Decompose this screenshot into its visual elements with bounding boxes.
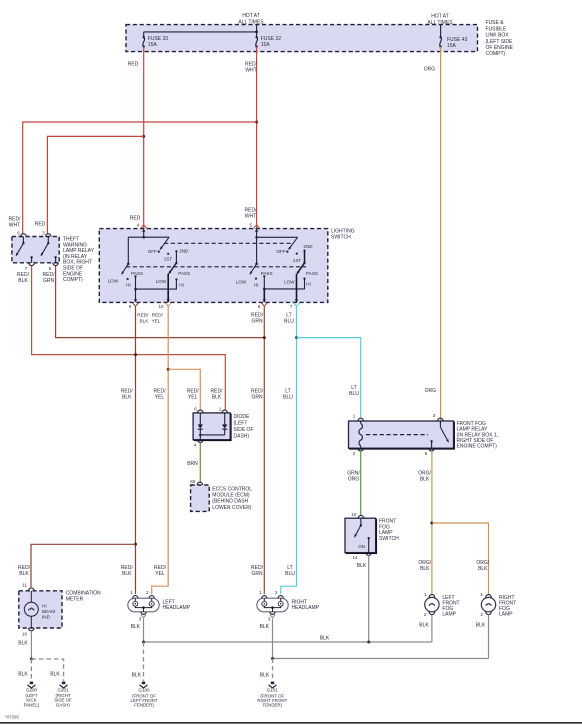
svg-text:15A: 15A bbox=[261, 42, 271, 48]
relay contact B (pin3 to pin5) bbox=[41, 237, 57, 263]
svg-text:(LEFT: (LEFT bbox=[234, 421, 248, 427]
svg-text:(LEFT SIDE: (LEFT SIDE bbox=[486, 39, 514, 45]
svg-text:2: 2 bbox=[275, 590, 278, 595]
svg-text:BLK: BLK bbox=[18, 278, 28, 284]
svg-text:1ST: 1ST bbox=[164, 256, 173, 261]
right headlamp low/high filaments bbox=[262, 598, 283, 612]
svg-text:YEL: YEL bbox=[188, 395, 198, 401]
svg-text:G200: G200 bbox=[26, 687, 38, 692]
svg-text:YEL: YEL bbox=[155, 571, 165, 577]
node: ORG/BLK splits to right fog lamp bbox=[430, 522, 433, 525]
power feed: HOT AT ALL TIMES (right) bbox=[427, 14, 453, 26]
pin 3 of theft relay bbox=[42, 231, 51, 237]
svg-text:*07096: *07096 bbox=[5, 715, 19, 720]
svg-text:RED/: RED/ bbox=[152, 313, 164, 318]
svg-text:(BEHIND DASH: (BEHIND DASH bbox=[212, 499, 248, 505]
diode element left bbox=[198, 413, 203, 435]
svg-text:WHT: WHT bbox=[245, 214, 256, 220]
svg-text:BLK: BLK bbox=[320, 635, 330, 641]
svg-text:2: 2 bbox=[353, 451, 356, 456]
relay contact A (pin6 to pin7) bbox=[16, 237, 33, 263]
lighting switch internal: right dimmer pass switch sub3 bbox=[236, 237, 273, 302]
svg-text:BLU: BLU bbox=[284, 319, 294, 325]
wire: diode output join bbox=[199, 434, 225, 440]
node: RED/BLK splits to combination meter bbox=[134, 543, 137, 546]
wire: ORG from fuse 43 to front fog lamp relay pin 3 bbox=[424, 47, 441, 421]
hi beam indicator bulb bbox=[24, 591, 55, 628]
ECCS control module (dashed box) bbox=[191, 485, 210, 511]
svg-text:FUSIBLE: FUSIBLE bbox=[486, 26, 508, 32]
svg-text:OFF: OFF bbox=[276, 249, 285, 254]
label: front fog lamp relay bbox=[457, 421, 499, 449]
svg-text:BLK: BLK bbox=[18, 640, 28, 646]
svg-text:BLK: BLK bbox=[132, 673, 142, 679]
node: RED/GRN joins relay branch bbox=[263, 336, 266, 339]
svg-text:BLK: BLK bbox=[212, 395, 222, 401]
wire: ORG/BLK branch to right front fog lamp bbox=[432, 523, 490, 594]
svg-text:GRN: GRN bbox=[251, 571, 263, 577]
lighting switch internal: right rotary (OFF/1ST/2ND) bbox=[255, 232, 313, 263]
svg-text:OF ENGINE: OF ENGINE bbox=[486, 45, 514, 51]
pin 11 of combination meter bbox=[22, 582, 34, 590]
pin 5 connector of lighting switch bbox=[250, 222, 260, 231]
svg-text:PASS: PASS bbox=[131, 271, 143, 276]
wire: BLK right headlamp pin 3 to ground node bbox=[260, 618, 273, 658]
wire: BLK fog switch pin 14 to ground bus bbox=[357, 555, 369, 642]
lighting switch internal: left dimmer pass switch sub1 bbox=[108, 237, 143, 302]
pin 2 of left headlamp bbox=[146, 590, 154, 598]
svg-text:14: 14 bbox=[352, 555, 358, 560]
wire: LT BLU lighting switch pin 7 to right headlamp pin 2 bbox=[281, 306, 297, 594]
pin 4 of diode bbox=[194, 440, 203, 448]
diode assembly D1 (box) bbox=[193, 413, 231, 441]
svg-text:METER: METER bbox=[66, 596, 84, 602]
svg-text:10: 10 bbox=[351, 512, 357, 517]
lighting switch internal: left rotary (OFF/1ST/2ND) bbox=[128, 232, 189, 262]
svg-text:9: 9 bbox=[129, 304, 132, 309]
ground G201 bbox=[54, 682, 72, 708]
node: right headlamp ground junction bbox=[271, 657, 274, 660]
svg-text:7: 7 bbox=[25, 266, 28, 271]
diode element right bbox=[222, 413, 227, 435]
pin 6 of theft relay bbox=[17, 231, 26, 237]
wire: BLK ground bus 2 (right headlamp / right fog lamp) bbox=[273, 658, 489, 660]
svg-text:YEL: YEL bbox=[155, 395, 165, 401]
wire: RED branch to theft warning relay pin 3 bbox=[35, 136, 144, 233]
svg-text:7: 7 bbox=[290, 304, 293, 309]
wire: RED/YEL lighting switch pin 10 to left headlamp pin 2 bbox=[152, 306, 169, 594]
pin 16 of combination meter bbox=[22, 628, 34, 637]
svg-text:BLU: BLU bbox=[349, 391, 359, 397]
svg-text:YEL: YEL bbox=[152, 319, 161, 324]
svg-text:BLU: BLU bbox=[285, 571, 295, 577]
svg-text:1: 1 bbox=[353, 413, 356, 418]
svg-text:BLK: BLK bbox=[122, 395, 132, 401]
label: right front fog lamp bbox=[499, 595, 516, 618]
svg-text:ORG: ORG bbox=[424, 67, 436, 73]
label: lighting switch bbox=[331, 229, 355, 241]
pin 1 of left front fog lamp bbox=[424, 592, 435, 597]
fog relay contact bbox=[430, 421, 448, 448]
wire: ORG/BLK fog relay pin 5 to left front fog lamp bbox=[418, 451, 432, 594]
svg-text:BLK: BLK bbox=[478, 566, 488, 572]
pin 10 connector of lighting switch bbox=[158, 299, 171, 309]
svg-text:HI: HI bbox=[306, 281, 311, 286]
pin 9 connector of lighting switch bbox=[129, 299, 139, 309]
ground G200 bbox=[24, 682, 40, 708]
svg-text:11: 11 bbox=[22, 582, 27, 587]
label: RED/BLK at diode pin 1 bbox=[211, 389, 224, 401]
svg-text:2ND: 2ND bbox=[179, 249, 189, 254]
svg-text:BLK: BLK bbox=[140, 319, 150, 324]
svg-text:4: 4 bbox=[194, 443, 197, 448]
page bottom rule bbox=[0, 722, 582, 724]
svg-text:ORG: ORG bbox=[348, 476, 360, 482]
svg-text:2: 2 bbox=[146, 590, 149, 595]
svg-text:SIDE OF: SIDE OF bbox=[234, 427, 254, 433]
svg-text:PASS: PASS bbox=[261, 271, 273, 276]
pin 2 of right front fog lamp bbox=[480, 612, 491, 617]
pin 6 of diode bbox=[194, 407, 203, 413]
label: combination meter bbox=[66, 591, 101, 603]
label: front fog lamp switch bbox=[379, 519, 399, 542]
svg-text:4: 4 bbox=[137, 222, 140, 227]
lighting switch internal: mechanical link (rotary) bbox=[164, 242, 293, 244]
node: left headlamp ground junction bbox=[142, 641, 145, 644]
svg-text:COMPT): COMPT) bbox=[486, 51, 506, 57]
lighting switch internal: mechanical link (dimmer) bbox=[126, 266, 306, 268]
fuse F43 15A bbox=[439, 25, 467, 49]
label: theft warning lamp relay bbox=[63, 237, 95, 284]
combination meter (dashed box) bbox=[19, 591, 62, 628]
svg-text:HI: HI bbox=[42, 604, 47, 609]
svg-text:BLK: BLK bbox=[18, 672, 28, 678]
right front fog lamp body bbox=[481, 597, 495, 611]
label: right headlamp bbox=[292, 599, 320, 611]
pin 3 of right headlamp bbox=[268, 612, 276, 622]
svg-text:ON: ON bbox=[358, 544, 365, 549]
svg-text:MODULE (ECM): MODULE (ECM) bbox=[212, 493, 250, 499]
wire: BLK combination meter pin 16 to ground split bbox=[18, 631, 31, 659]
svg-text:RED/: RED/ bbox=[137, 313, 149, 318]
wire: BLK left headlamp pin 3 to ground bus bbox=[131, 618, 144, 642]
svg-text:BLK: BLK bbox=[131, 624, 141, 630]
node: RED/WHT split to theft relay bbox=[255, 121, 258, 124]
left headlamp body bbox=[128, 598, 159, 612]
svg-text:DIODE: DIODE bbox=[234, 414, 251, 420]
pin 7 connector of lighting switch bbox=[290, 299, 300, 309]
left front fog lamp body bbox=[425, 597, 439, 611]
pin 2 of right headlamp bbox=[275, 590, 283, 598]
wire: dashed BLK to G101 bbox=[260, 659, 273, 682]
wire: dashed BLK to G100 bbox=[132, 642, 144, 681]
svg-text:WHT: WHT bbox=[245, 68, 256, 74]
svg-text:SWITCH: SWITCH bbox=[331, 235, 351, 241]
svg-text:PASS: PASS bbox=[178, 271, 190, 276]
pin 60 of ECM bbox=[190, 479, 202, 485]
svg-text:LINK BOX: LINK BOX bbox=[486, 33, 510, 39]
node: RED/YEL splits to diode bbox=[167, 368, 170, 371]
svg-text:BLK: BLK bbox=[260, 624, 270, 630]
lighting switch internal: left beam switch sub2 bbox=[136, 251, 191, 302]
svg-text:2ND: 2ND bbox=[303, 244, 313, 249]
svg-text:WHT: WHT bbox=[9, 223, 20, 229]
svg-text:5: 5 bbox=[49, 266, 52, 271]
wire: LT BLU branch to front fog lamp relay pin 1 bbox=[297, 338, 361, 418]
svg-text:GRN: GRN bbox=[251, 395, 263, 401]
ground G100 bbox=[131, 682, 158, 708]
node: RED split to theft relay bbox=[142, 135, 145, 138]
fog switch contact bbox=[354, 518, 370, 552]
front fog lamp relay (box) bbox=[349, 421, 455, 449]
svg-text:BLK: BLK bbox=[420, 566, 430, 572]
pin 1 of left headlamp bbox=[130, 590, 138, 598]
ground G101 bbox=[257, 682, 287, 708]
label: diode (left side of dash) bbox=[234, 414, 254, 440]
label: left headlamp bbox=[163, 599, 191, 611]
svg-text:3: 3 bbox=[42, 231, 45, 236]
lighting switch internal: right beam switch sub4 bbox=[264, 251, 318, 303]
fuse and fusible link box (dashed) bbox=[126, 25, 478, 52]
pin 2 of left front fog lamp bbox=[424, 612, 435, 617]
pin 6 connector of lighting switch bbox=[258, 299, 268, 309]
pin 3 of fog relay bbox=[433, 413, 443, 421]
node: RED/BLK joins relay branch bbox=[134, 353, 137, 356]
wire: GRN/ORG fog relay pin 2 to fog switch pin 10 bbox=[347, 451, 360, 515]
svg-text:BLK: BLK bbox=[476, 622, 486, 628]
svg-text:BLK: BLK bbox=[50, 672, 60, 678]
svg-text:16: 16 bbox=[22, 632, 28, 637]
node: fog switch ground junction bbox=[367, 641, 370, 644]
svg-text:LOWER COVER): LOWER COVER) bbox=[212, 505, 252, 511]
svg-text:RED: RED bbox=[128, 62, 139, 68]
pin 3 of left headlamp bbox=[139, 612, 147, 622]
wire: hot feed bus inside fuse box bbox=[144, 25, 257, 38]
svg-text:HOT AT: HOT AT bbox=[431, 14, 449, 20]
fog relay coil bbox=[359, 421, 362, 448]
svg-text:1: 1 bbox=[259, 590, 262, 595]
svg-text:BEAM: BEAM bbox=[42, 609, 55, 614]
right headlamp body bbox=[257, 598, 288, 612]
svg-text:LOW: LOW bbox=[156, 279, 167, 284]
fuse F32 15A bbox=[255, 32, 281, 48]
power feed: HOT AT ALL TIMES (left) bbox=[238, 13, 264, 25]
svg-text:FUSE &: FUSE & bbox=[486, 20, 505, 26]
svg-text:1: 1 bbox=[219, 407, 222, 412]
svg-text:3: 3 bbox=[268, 617, 271, 622]
svg-text:LOW: LOW bbox=[236, 280, 247, 285]
svg-text:5: 5 bbox=[250, 222, 253, 227]
fuse F33 15A bbox=[143, 36, 169, 48]
svg-text:LOW: LOW bbox=[108, 279, 119, 284]
svg-text:SWITCH: SWITCH bbox=[379, 536, 399, 542]
pin 5 of theft relay bbox=[49, 263, 59, 271]
label: left front fog lamp bbox=[442, 595, 459, 618]
svg-text:LAMP: LAMP bbox=[442, 612, 456, 618]
pin 2 of fog relay bbox=[353, 448, 364, 456]
svg-text:LOW: LOW bbox=[284, 279, 295, 284]
svg-text:ORG: ORG bbox=[425, 388, 437, 394]
node: bus junction bbox=[255, 31, 258, 34]
svg-text:15A: 15A bbox=[148, 42, 158, 48]
svg-text:HEADLAMP: HEADLAMP bbox=[163, 605, 191, 611]
svg-text:COMPT): COMPT) bbox=[63, 277, 83, 283]
svg-text:OFF: OFF bbox=[148, 249, 157, 254]
lighting switch (dashed box) bbox=[99, 229, 327, 303]
label: ECCS control module bbox=[212, 486, 252, 511]
svg-text:PANEL): PANEL) bbox=[24, 702, 40, 707]
svg-text:BLK: BLK bbox=[419, 622, 429, 628]
pin 7 of theft relay bbox=[25, 263, 35, 271]
svg-text:BLK: BLK bbox=[420, 476, 430, 482]
svg-text:2: 2 bbox=[424, 612, 427, 617]
svg-text:RED: RED bbox=[35, 222, 46, 228]
svg-text:HI: HI bbox=[126, 282, 131, 287]
pin 1 of right headlamp bbox=[259, 590, 267, 598]
wire: BLK left fog lamp to ground bus 1 bbox=[419, 615, 432, 642]
pin 1 of diode bbox=[219, 407, 228, 413]
svg-text:1: 1 bbox=[424, 592, 427, 597]
svg-text:6: 6 bbox=[194, 407, 197, 412]
svg-text:1: 1 bbox=[130, 590, 133, 595]
node: meter ground split bbox=[30, 658, 33, 661]
theft warning lamp relay (dashed box) bbox=[12, 237, 59, 263]
svg-text:G201: G201 bbox=[57, 687, 69, 692]
svg-text:BLK: BLK bbox=[122, 571, 132, 577]
svg-text:BRN: BRN bbox=[187, 461, 198, 467]
wire: RED/GRN lighting switch pin 6 to right headlamp pin 1 bbox=[251, 306, 264, 594]
label: fuse and fusible link box bbox=[486, 20, 514, 57]
svg-text:DASH): DASH) bbox=[234, 434, 250, 440]
svg-text:ECCS CONTROL: ECCS CONTROL bbox=[212, 486, 252, 492]
svg-text:G100: G100 bbox=[138, 688, 150, 693]
wire: RED/YEL branch to diode pin 6 bbox=[168, 369, 200, 410]
wire: BRN diode pin 4 to ECM pin 60 bbox=[187, 443, 200, 483]
svg-text:3: 3 bbox=[139, 617, 142, 622]
pin 1 of right front fog lamp bbox=[480, 592, 491, 597]
svg-text:BLK: BLK bbox=[357, 563, 367, 569]
svg-text:2: 2 bbox=[480, 612, 483, 617]
wire: RED/BLK lighting switch pin 9 to left headlamp pin 1 bbox=[121, 306, 149, 594]
node: LT BLU splits to fog relay bbox=[295, 336, 298, 339]
wire: RED/WHT branch to theft warning relay pin 6 bbox=[9, 122, 257, 234]
svg-text:FENDER): FENDER) bbox=[134, 703, 154, 708]
svg-text:BLK: BLK bbox=[260, 673, 270, 679]
svg-text:PASS: PASS bbox=[306, 271, 318, 276]
wire: RED/GRN theft relay pin 5 to RED/GRN net bbox=[43, 266, 265, 338]
svg-text:HOT AT: HOT AT bbox=[242, 13, 260, 19]
wire: BLK right fog lamp to ground bus 2 bbox=[476, 615, 489, 659]
svg-text:HEADLAMP: HEADLAMP bbox=[292, 605, 320, 611]
front fog lamp switch (box) bbox=[345, 518, 377, 553]
svg-text:HI: HI bbox=[254, 282, 259, 287]
wire: dashed BLK to G201 bbox=[31, 659, 63, 681]
left headlamp low/high filaments bbox=[133, 598, 154, 612]
svg-text:IND: IND bbox=[42, 614, 51, 619]
svg-text:5: 5 bbox=[425, 451, 428, 456]
svg-text:GRN: GRN bbox=[251, 319, 263, 325]
svg-text:ENGINE COMPT): ENGINE COMPT) bbox=[457, 444, 498, 450]
svg-text:15A: 15A bbox=[447, 43, 457, 49]
pin 10 of fog switch bbox=[351, 512, 363, 518]
svg-text:GRN: GRN bbox=[43, 278, 55, 284]
svg-text:6: 6 bbox=[258, 304, 261, 309]
fog relay mechanical link (dashed) bbox=[366, 434, 428, 436]
svg-text:1: 1 bbox=[480, 592, 483, 597]
svg-text:BLK: BLK bbox=[19, 571, 29, 577]
svg-text:FENDER): FENDER) bbox=[263, 703, 283, 708]
svg-text:10: 10 bbox=[158, 304, 164, 309]
svg-text:BLU: BLU bbox=[283, 395, 293, 401]
pin 1 of fog relay bbox=[353, 413, 364, 421]
wire: BLK ground bus 1 (left headlamp / fog switch / left fog lamp) bbox=[144, 635, 432, 642]
svg-text:RED: RED bbox=[130, 216, 141, 222]
svg-text:DASH): DASH) bbox=[56, 702, 70, 707]
svg-text:G101: G101 bbox=[267, 688, 279, 693]
svg-text:LAMP: LAMP bbox=[499, 612, 513, 618]
pin 4 connector of lighting switch bbox=[137, 222, 147, 231]
svg-text:60: 60 bbox=[190, 479, 196, 484]
wire: RED from fuse 33 to lighting switch pin 4 bbox=[128, 47, 144, 229]
wire: RED/WHT from fuse 32 to lighting switch pin 5 bbox=[245, 47, 258, 229]
wire: RED/BLK branch to combination meter pin 11 bbox=[18, 544, 135, 587]
svg-text:1ST: 1ST bbox=[293, 258, 302, 263]
pin 14 of fog switch bbox=[352, 553, 371, 560]
wire: RED/BLK theft relay pin 7 to diode pin 1 bbox=[17, 266, 225, 411]
svg-text:HI: HI bbox=[179, 282, 184, 287]
svg-text:6: 6 bbox=[17, 231, 20, 236]
wire: dashed BLK to G200 bbox=[18, 659, 31, 681]
svg-text:3: 3 bbox=[433, 413, 436, 418]
pin 5 of fog relay bbox=[425, 448, 435, 456]
